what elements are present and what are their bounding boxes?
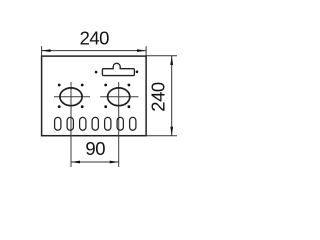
- svg-text:90: 90: [85, 138, 105, 159]
- svg-text:240: 240: [80, 28, 110, 49]
- svg-text:240: 240: [148, 82, 169, 112]
